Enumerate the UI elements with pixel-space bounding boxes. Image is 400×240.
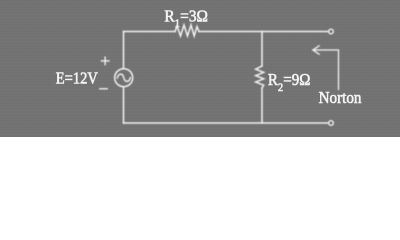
source E circle — [115, 69, 133, 87]
minus sign — [100, 88, 107, 90]
source E sine wave — [117, 74, 130, 81]
resistor R1 — [175, 25, 199, 36]
plus sign — [101, 57, 109, 64]
Norton arrow — [313, 50, 339, 89]
node terminal top-right — [329, 29, 334, 34]
wire left upper — [123, 32, 125, 69]
Norton arrowhead — [313, 46, 319, 54]
svg-text:Norton: Norton — [319, 88, 362, 107]
svg-text:E=12V: E=12V — [56, 69, 99, 88]
wire top-right segment — [199, 31, 328, 33]
wire left lower — [123, 87, 125, 123]
wire bottom — [124, 122, 329, 124]
wire right branch lower — [261, 88, 263, 123]
wire top-left segment — [124, 31, 176, 33]
resistor R2 — [256, 66, 264, 88]
wire right branch upper — [261, 32, 263, 67]
node terminal bottom-right — [329, 121, 334, 126]
